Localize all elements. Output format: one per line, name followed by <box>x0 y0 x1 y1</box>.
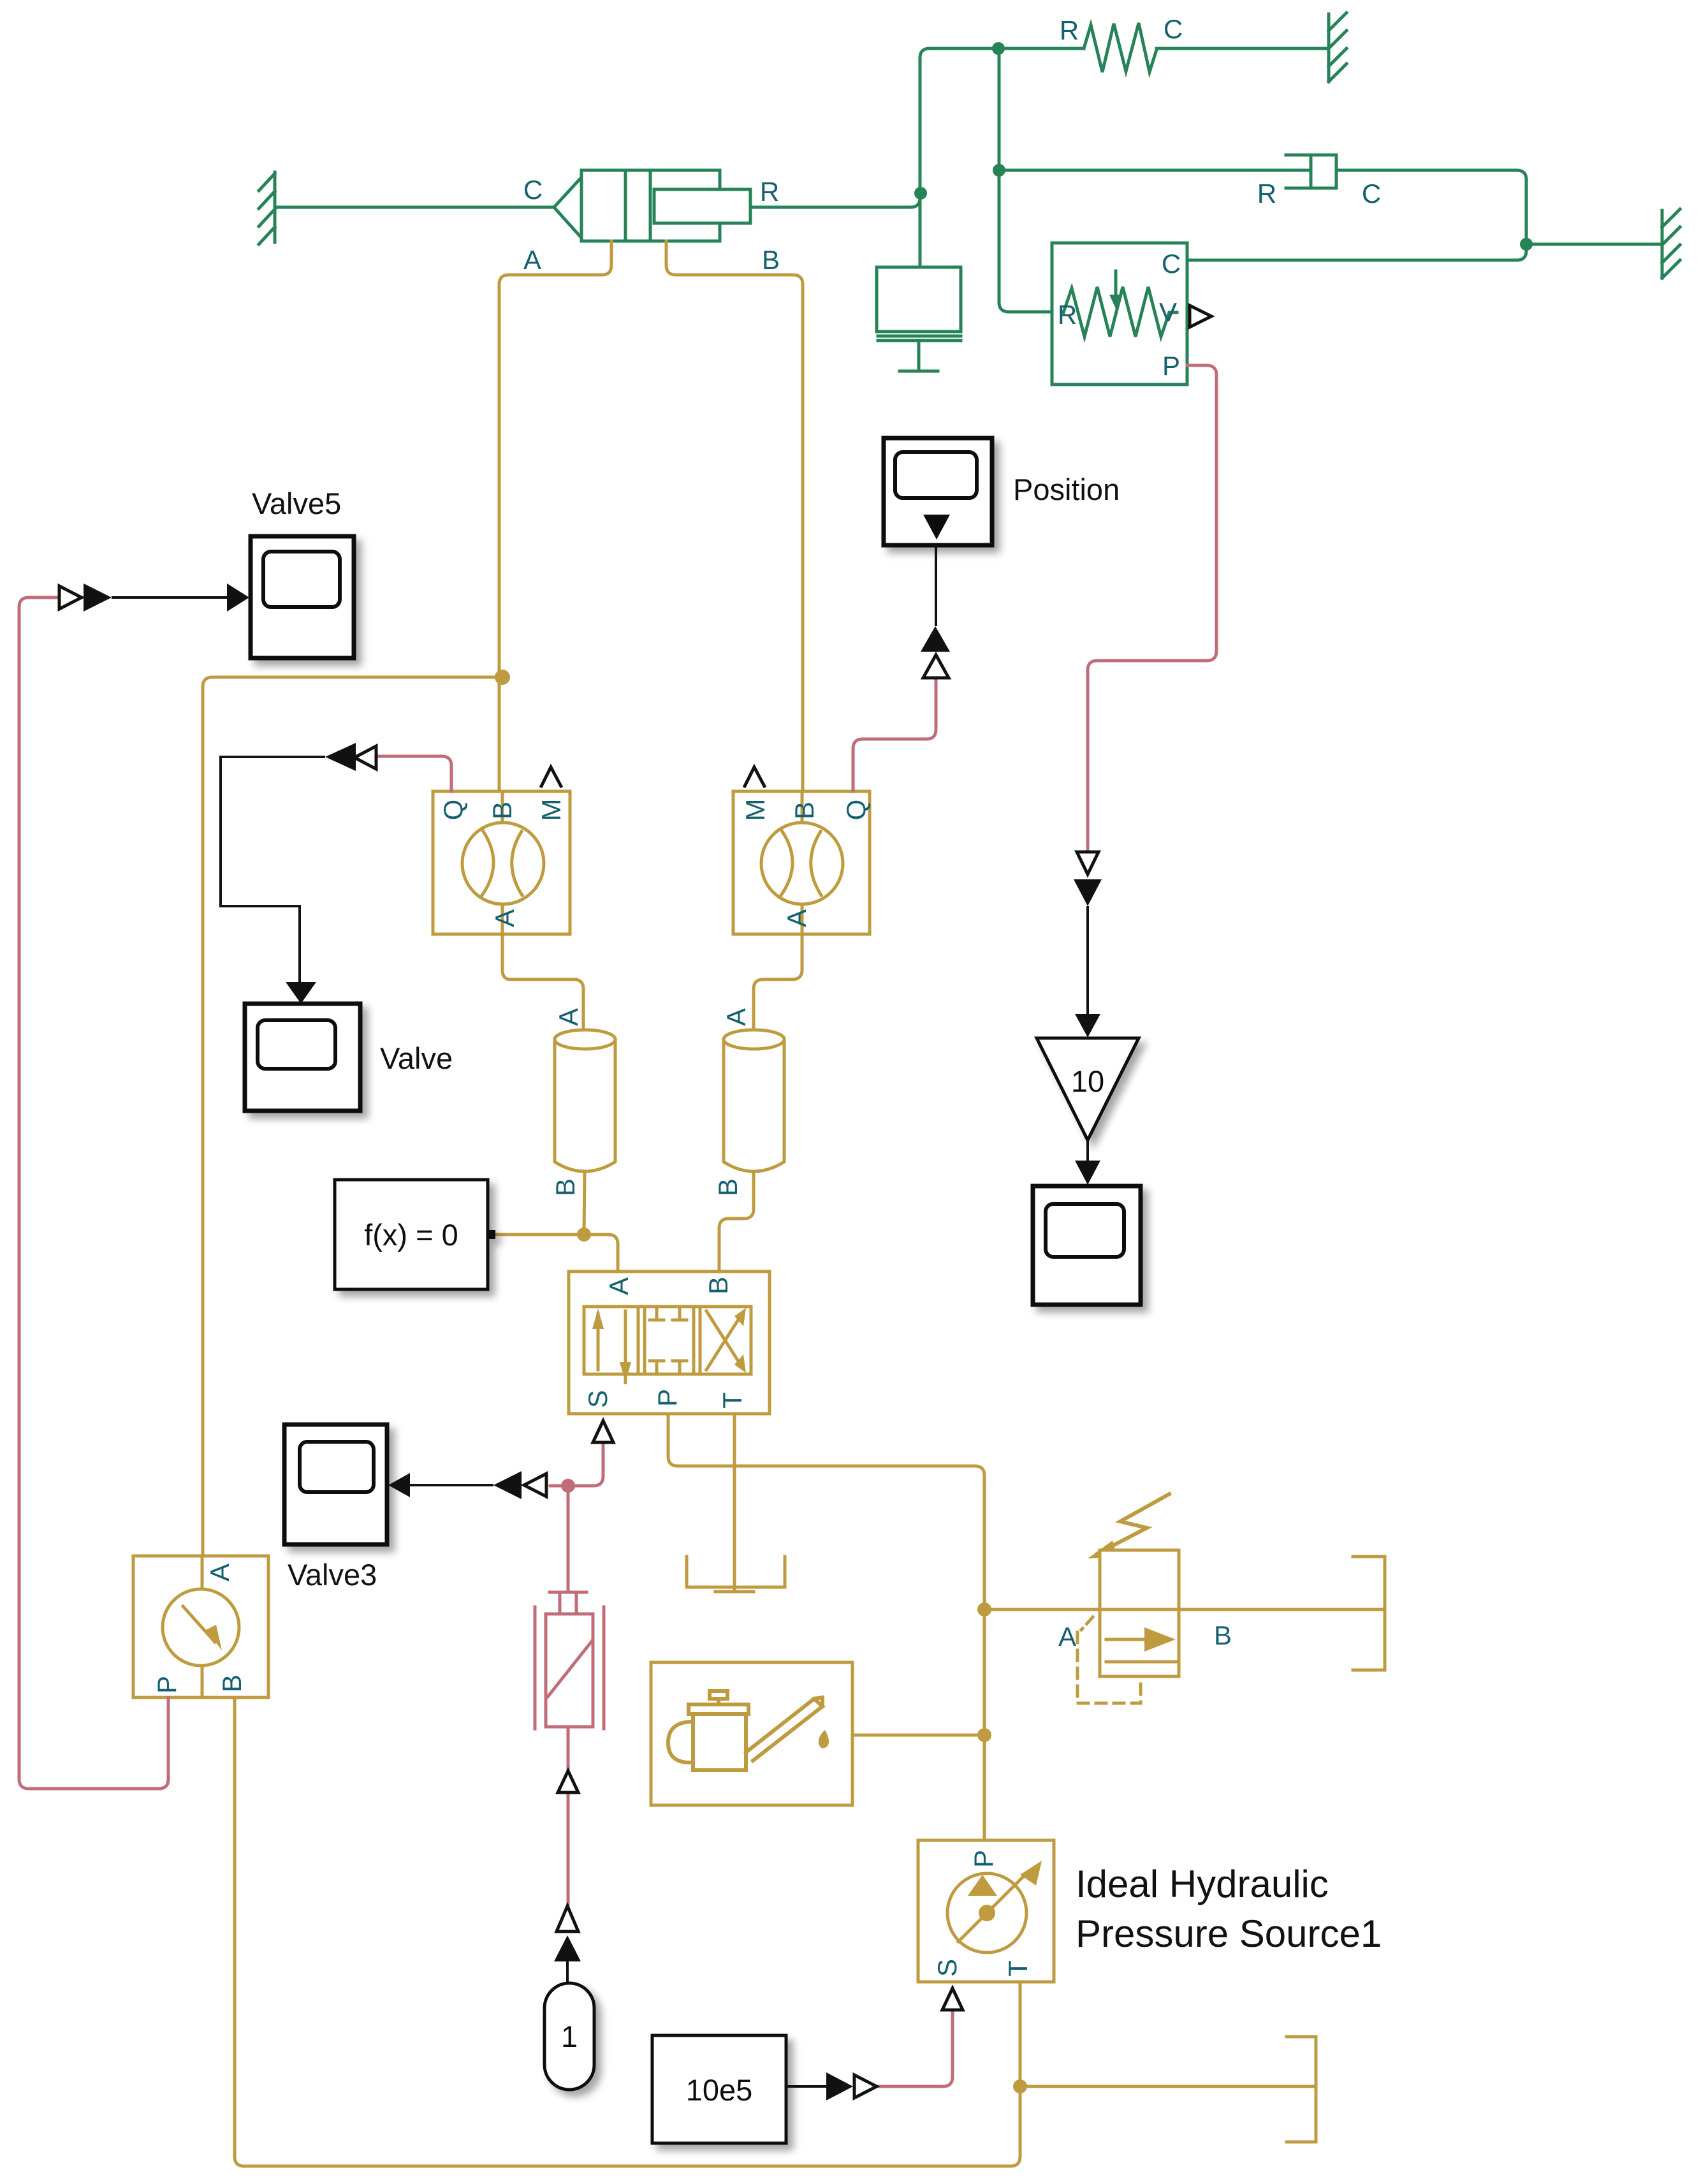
node junction pipe1-f(x) <box>577 1228 591 1242</box>
svg-text:B: B <box>762 245 780 275</box>
arrow into scope1 <box>1075 1161 1100 1185</box>
Valve3 converter arrows <box>388 1471 546 1499</box>
svg-text:C: C <box>1362 179 1381 209</box>
svg-text:S: S <box>932 1959 962 1977</box>
constant1 to solenoid converter chain <box>554 1906 581 1983</box>
svg-text:C: C <box>523 175 543 205</box>
Valve5 scope <box>251 536 354 658</box>
wire solenoid bottom to port triangle <box>567 1727 570 1769</box>
wire relief valve B to tank1 <box>1179 1608 1382 1611</box>
svg-text:M: M <box>536 799 566 821</box>
wire flow sensor2 A to pipe2 <box>754 934 802 1036</box>
PS port triangle solenoid <box>558 1771 578 1792</box>
PS port triangle source S <box>942 1988 963 2010</box>
hydraulic reference under valve T <box>687 1557 785 1592</box>
constant 10e5 block <box>652 2035 786 2143</box>
svg-text:R: R <box>760 177 779 207</box>
Position converter chain <box>921 515 950 678</box>
svg-text:M: M <box>740 799 770 821</box>
ideal hydraulic pressure source block <box>918 1840 1054 1982</box>
wire flow meter P to Valve5 converter <box>19 597 168 1789</box>
svg-text:C: C <box>1162 249 1181 279</box>
svg-text:P: P <box>968 1850 998 1868</box>
svg-text:T: T <box>1003 1960 1033 1977</box>
node junction reservoir <box>977 1728 991 1742</box>
svg-text:A: A <box>553 1008 583 1026</box>
wire spring to wall <box>1157 47 1328 50</box>
node junction A-line <box>495 670 510 685</box>
flow rate sensor 1 block <box>433 791 570 934</box>
node control junction <box>561 1479 575 1493</box>
svg-text:A: A <box>523 245 541 275</box>
svg-text:A: A <box>490 909 520 927</box>
wire pipe1 B to junction <box>584 1171 585 1235</box>
damper R-C <box>1286 155 1336 188</box>
scope1 (unnamed) <box>1033 1186 1141 1305</box>
wire valve P to pressure source P <box>668 1414 984 1840</box>
Valve5 input converter: hollow then filled arrow <box>59 583 249 612</box>
ideal translational motion sensor block <box>1052 243 1187 385</box>
svg-text:B: B <box>713 1178 743 1196</box>
Valve feedback converter arrows <box>221 743 376 1004</box>
wire bottom bus from junction to flow meter B <box>235 1697 1020 2166</box>
svg-text:Q: Q <box>438 800 468 821</box>
wire cylinder B down-right-down to flow sensor 2 B <box>666 241 803 791</box>
svg-text:Pressure Source1: Pressure Source1 <box>1076 1912 1382 1955</box>
wire gain to scope <box>1086 1140 1089 1161</box>
tank symbol 1 <box>1353 1557 1385 1670</box>
svg-text:Q: Q <box>841 800 871 821</box>
wall anchor left <box>259 172 275 244</box>
wire control node down to solenoid <box>567 1486 570 1592</box>
wire damper to wall junction <box>1338 170 1526 244</box>
svg-text:Valve5: Valve5 <box>252 487 341 520</box>
wire rod right to vertical <box>750 48 1084 207</box>
svg-text:Ideal Hydraulic: Ideal Hydraulic <box>1076 1863 1329 1905</box>
wire junction to tank2 <box>1020 2085 1316 2088</box>
wire flow sensor2 Q to position converter <box>853 680 936 791</box>
Valve scope <box>245 1004 360 1111</box>
wire junction to relief valve A <box>984 1608 1100 1611</box>
svg-text:A: A <box>721 1008 751 1026</box>
wire source T to tank2 junction <box>1019 1982 1022 2086</box>
wire f(x) port to junction <box>495 1233 584 1236</box>
wire junction to right wall <box>1526 243 1661 246</box>
node junction damper branch <box>993 164 1005 177</box>
svg-text:P: P <box>652 1389 682 1407</box>
wire port triangle to converter pair <box>567 1792 570 1905</box>
f(x)=0 solver block <box>335 1180 495 1289</box>
tank symbol 2 <box>1287 2037 1316 2142</box>
mass block <box>877 267 961 371</box>
pipe 1 block <box>555 1030 615 1171</box>
node junction T <box>1013 2079 1027 2093</box>
node junction rod-vertical <box>914 187 927 200</box>
svg-text:Position: Position <box>1013 473 1120 506</box>
wire rod left <box>275 206 554 209</box>
solenoid valve actuator block <box>535 1592 604 1729</box>
wire flow sensor1 A to pipe1 <box>502 934 583 1036</box>
svg-text:A: A <box>205 1564 235 1581</box>
hydraulic reservoir block <box>651 1662 852 1805</box>
svg-text:1: 1 <box>561 2019 578 2053</box>
wire branch to bottom flow meter A <box>203 677 502 1556</box>
svg-text:B: B <box>217 1675 247 1692</box>
wire valve T down to hydraulic reference <box>733 1414 736 1592</box>
motion sensor V output triangle <box>1190 305 1211 327</box>
wire flow sensor1 Q to valve scope converter <box>377 756 451 791</box>
wire pipe2 B to valve B <box>719 1171 754 1272</box>
Position scope <box>884 438 992 545</box>
svg-text:C: C <box>1164 14 1183 44</box>
svg-text:T: T <box>717 1392 747 1409</box>
node junction wall branch <box>1520 238 1533 251</box>
PS port triangle valve S <box>593 1421 613 1442</box>
wire junction to valve A <box>584 1235 618 1272</box>
svg-text:V: V <box>1159 297 1177 327</box>
pressure relief valve block <box>1077 1494 1179 1703</box>
svg-text:Valve: Valve <box>380 1041 453 1075</box>
svg-text:A: A <box>604 1277 634 1295</box>
spring R-C <box>1084 23 1157 72</box>
svg-text:S: S <box>583 1390 613 1408</box>
pipe 2 block <box>724 1030 784 1171</box>
wire sensor C to junction <box>1187 244 1526 260</box>
wire reservoir to junction <box>852 1734 984 1737</box>
svg-text:P: P <box>1162 351 1180 381</box>
gain block 10 <box>1037 1038 1139 1140</box>
svg-text:B: B <box>703 1277 733 1294</box>
flow sensor2 output caret <box>744 767 765 788</box>
svg-text:A: A <box>1058 1622 1076 1652</box>
wall anchor right <box>1662 209 1680 278</box>
svg-text:B: B <box>550 1178 580 1196</box>
10e5 output converter chain <box>786 2072 877 2100</box>
wire 10e5 converter to source S <box>877 2011 953 2086</box>
wire cylinder A down-left-down to flow sensor 1 B <box>499 241 611 791</box>
wall anchor top right <box>1329 13 1347 82</box>
wire damper branch <box>999 169 1311 172</box>
svg-text:P: P <box>152 1676 182 1694</box>
wire sensor P to converter column <box>1088 365 1216 851</box>
svg-text:B: B <box>789 802 819 819</box>
svg-text:Valve3: Valve3 <box>288 1558 377 1592</box>
svg-text:f(x) = 0: f(x) = 0 <box>364 1218 458 1252</box>
svg-text:10: 10 <box>1071 1064 1104 1098</box>
svg-text:10e5: 10e5 <box>686 2073 753 2107</box>
node junction relief branch <box>977 1602 991 1616</box>
bottom flow meter block <box>133 1556 268 1697</box>
4-way directional valve block <box>569 1272 770 1414</box>
svg-text:B: B <box>487 802 517 819</box>
wire vertical from top junction down to sensor R <box>999 48 1052 312</box>
constant 1 block <box>544 1983 594 2090</box>
Valve3 scope <box>284 1425 387 1544</box>
wire control node to Valve3 converter <box>550 1484 568 1488</box>
wire vertical down to mass <box>919 198 922 267</box>
svg-text:R: R <box>1060 15 1079 45</box>
flow sensor1 output caret <box>541 767 562 788</box>
svg-text:B: B <box>1214 1620 1232 1650</box>
svg-text:A: A <box>782 909 812 927</box>
node junction top <box>992 42 1005 55</box>
wire control node to valve S <box>568 1442 603 1486</box>
gain input converter chain <box>1074 852 1102 1037</box>
svg-text:R: R <box>1257 179 1276 209</box>
hydraulic cylinder body <box>554 170 750 241</box>
svg-text:R: R <box>1058 300 1077 330</box>
flow rate sensor 2 block <box>733 791 870 934</box>
